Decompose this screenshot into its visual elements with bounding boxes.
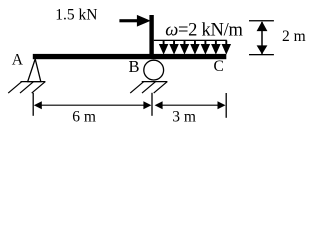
roller support B (circle): [144, 60, 164, 80]
svg-text:3 m: 3 m: [172, 109, 196, 126]
extension line at C: [225, 93, 227, 118]
ground line at B: [142, 81, 168, 83]
dimension line 6 m: [34, 101, 152, 109]
hatch stroke A1: [8, 82, 22, 94]
dimension line 3 m: [155, 101, 226, 109]
svg-text:B: B: [129, 57, 140, 76]
hatch stroke A3: [32, 82, 46, 94]
pin support A (triangle): [28, 59, 41, 82]
distributed load arrow 7: [222, 40, 232, 54]
hatch stroke A2: [20, 82, 34, 94]
distributed load arrow 6: [211, 40, 221, 54]
ground line at A: [21, 81, 46, 83]
extension line at B: [151, 93, 153, 116]
distributed load arrow 1: [159, 40, 169, 54]
svg-text:C: C: [214, 58, 224, 75]
svg-text:1.5 kN: 1.5 kN: [55, 6, 97, 23]
hatch stroke B3: [154, 82, 168, 94]
svg-text:ω=2 kN/m: ω=2 kN/m: [165, 21, 243, 41]
svg-text:A: A: [12, 51, 24, 68]
distributed load line: [154, 40, 227, 41]
distributed load arrow 5: [201, 40, 211, 54]
svg-text:2 m: 2 m: [282, 28, 306, 45]
hatch stroke B1: [130, 82, 144, 94]
distributed load arrow 4: [190, 40, 200, 54]
force arrow 1.5 kN: [119, 15, 150, 27]
dimension 2 m vertical: [249, 20, 274, 55]
distributed load arrow 2: [169, 40, 179, 54]
beam AC: [33, 54, 227, 59]
post at B (2 m vertical member): [149, 15, 153, 55]
distributed load arrow 3: [180, 40, 190, 54]
hatch stroke B2: [142, 82, 156, 94]
extension line at A: [32, 93, 34, 116]
svg-text:6 m: 6 m: [72, 109, 96, 126]
